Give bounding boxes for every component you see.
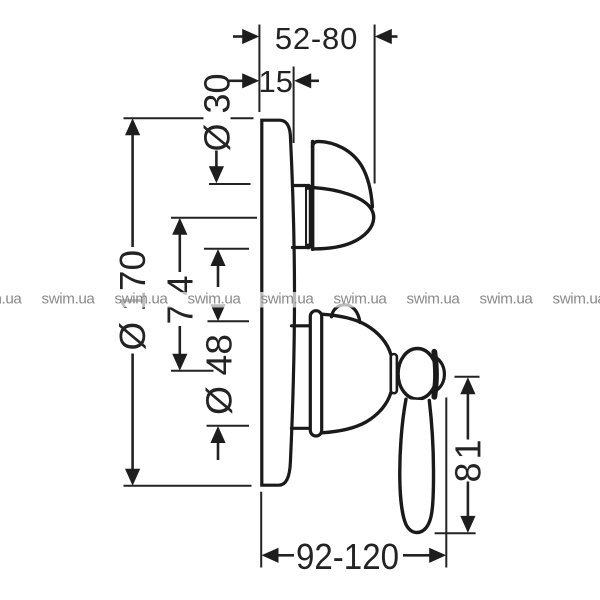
svg-text:swim.ua: swim.ua [407, 290, 461, 307]
svg-text:swim.ua: swim.ua [480, 290, 534, 307]
svg-text:swim.ua: swim.ua [261, 290, 315, 307]
svg-text:swim.ua: swim.ua [334, 290, 388, 307]
svg-text:92-120: 92-120 [296, 536, 399, 577]
svg-text:Ø 48: Ø 48 [198, 334, 239, 415]
svg-text:Ø 30: Ø 30 [196, 74, 237, 152]
svg-text:swim.ua: swim.ua [0, 290, 22, 307]
svg-text:81: 81 [447, 440, 488, 483]
svg-text:15: 15 [259, 64, 293, 99]
svg-text:swim.ua: swim.ua [553, 290, 600, 307]
svg-text:swim.ua: swim.ua [115, 290, 169, 307]
svg-text:swim.ua: swim.ua [42, 290, 96, 307]
svg-text:52-80: 52-80 [275, 21, 358, 56]
svg-text:swim.ua: swim.ua [188, 290, 242, 307]
